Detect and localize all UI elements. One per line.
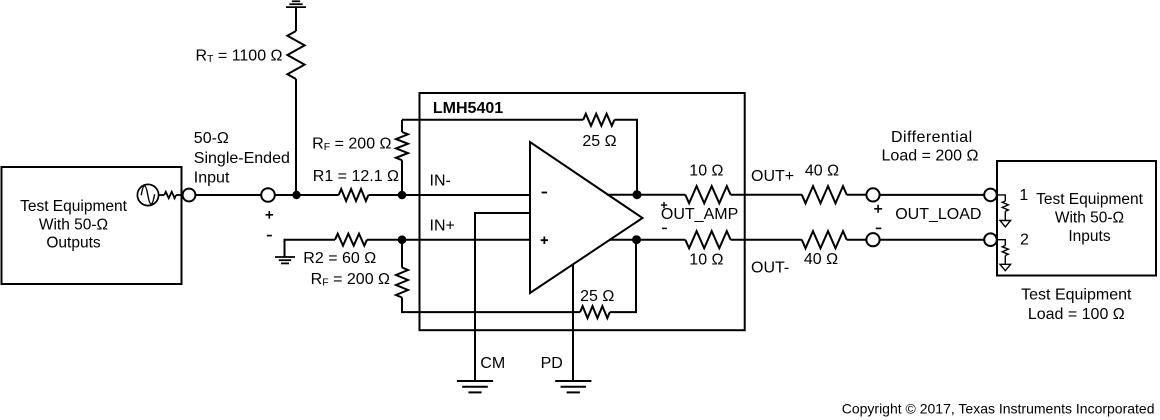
wire P2 to load port bottom bbox=[880, 239, 985, 241]
label 50-ohm Single-Ended Input bbox=[194, 130, 290, 187]
wire 25 ohm bottom to OUT- node bbox=[610, 240, 636, 312]
wire J1 to J2 bbox=[195, 194, 261, 196]
wire R2 to IN+ (into amp) bbox=[367, 239, 530, 241]
resistor 25 ohm bottom internal bbox=[580, 306, 610, 318]
ground GND top (inverted, above RT) bbox=[286, 1, 306, 7]
svg-text:Copyright © 2017, Texas Instru: Copyright © 2017, Texas Instruments Inco… bbox=[842, 400, 1155, 416]
label Test Equipment Load = 100 ohm bbox=[1021, 287, 1132, 324]
svg-text:OUT_AMP: OUT_AMP bbox=[661, 206, 738, 223]
svg-text:IN+: IN+ bbox=[430, 218, 455, 235]
resistor RT (vertical 1100 ohm) bbox=[287, 31, 304, 79]
wire 40 ohm to port top bbox=[847, 194, 867, 196]
svg-text:RT = 1100 Ω: RT = 1100 Ω bbox=[195, 47, 282, 65]
ground CM bbox=[457, 381, 493, 392]
svg-text:40 Ω: 40 Ω bbox=[805, 163, 839, 180]
svg-text:RF = 200 Ω: RF = 200 Ω bbox=[312, 136, 391, 154]
resistor 25 ohm top internal bbox=[583, 114, 614, 126]
wire 10 ohm to 40 ohm top bbox=[731, 194, 802, 196]
node input junction bbox=[292, 191, 300, 199]
wire CM to amp bbox=[475, 213, 530, 380]
resistor 40 ohm top bbox=[802, 186, 847, 203]
svg-text:CM: CM bbox=[480, 355, 505, 372]
wire J2 to R1 bbox=[275, 194, 339, 196]
svg-text:Differential: Differential bbox=[891, 129, 973, 146]
svg-text:With 50-Ω: With 50-Ω bbox=[39, 216, 108, 233]
test equipment output box bbox=[2, 167, 182, 284]
node OUT- junction bbox=[632, 235, 641, 244]
resistor RF upper (200 ohm feedback) bbox=[396, 132, 408, 160]
node IN+ junction bbox=[398, 235, 407, 244]
terminal port P3 top right bbox=[984, 189, 997, 202]
svg-text:Load = 200 Ω: Load = 200 Ω bbox=[882, 147, 979, 164]
resistor RF lower (200 ohm feedback) bbox=[396, 268, 408, 298]
label Test Equipment With 50-ohm Inputs bbox=[1036, 191, 1144, 245]
ground arrow input 1 bbox=[1000, 221, 1011, 227]
wire IN- node up to RF top bbox=[401, 160, 403, 195]
polarity - OUT_AMP bbox=[662, 227, 667, 229]
wire RF lower to bottom rail bbox=[402, 298, 580, 313]
svg-text:Outputs: Outputs bbox=[46, 235, 101, 252]
wire RT bottom to input node bbox=[295, 79, 297, 195]
svg-text:2: 2 bbox=[1020, 231, 1029, 248]
wire 40 ohm to port bottom bbox=[847, 239, 867, 241]
svg-text:IN-: IN- bbox=[430, 173, 451, 190]
svg-text:Input: Input bbox=[194, 170, 230, 187]
svg-text:LMH5401: LMH5401 bbox=[433, 100, 503, 117]
svg-text:10 Ω: 10 Ω bbox=[689, 251, 723, 268]
wire amp output to OUT- node bbox=[609, 239, 685, 241]
svg-text:OUT-: OUT- bbox=[751, 260, 789, 277]
svg-text:PD: PD bbox=[541, 355, 563, 372]
svg-text:25 Ω: 25 Ω bbox=[580, 288, 614, 305]
resistor source 50-ohm internal bbox=[164, 192, 176, 198]
wire source to series resistor bbox=[159, 194, 165, 196]
ground for R2 bbox=[275, 257, 295, 263]
wire 25 ohm to OUT+ node bbox=[614, 120, 637, 195]
svg-text:RF = 200 Ω: RF = 200 Ω bbox=[311, 271, 390, 289]
source VS (signal generator) bbox=[137, 184, 158, 205]
wire resistor to terminal bbox=[176, 194, 183, 196]
wire 10 ohm to 40 ohm bottom bbox=[731, 239, 802, 241]
svg-text:25 Ω: 25 Ω bbox=[582, 133, 616, 150]
terminal port P4 bottom right bbox=[984, 233, 997, 246]
IC boundary U1 LMH5401 bbox=[420, 93, 745, 330]
termination resistor input 2 bbox=[997, 240, 1005, 246]
resistor 10 ohm bottom bbox=[685, 231, 730, 248]
svg-text:Test Equipment: Test Equipment bbox=[1021, 287, 1132, 304]
terminal port J2 bbox=[261, 188, 275, 202]
label Differential Load = 200 ohm bbox=[882, 129, 979, 164]
wire top ground stem to RT bbox=[295, 7, 297, 31]
resistor R1 bbox=[339, 189, 369, 201]
polarity + at input bbox=[266, 211, 274, 219]
op-amp inverting input mark bbox=[542, 192, 548, 194]
node OUT+ junction bbox=[633, 190, 642, 199]
node IN- junction bbox=[398, 191, 407, 200]
wire amp output to OUT+ node bbox=[607, 194, 685, 196]
svg-text:Test Equipment: Test Equipment bbox=[1036, 191, 1144, 208]
resistor 10 ohm top bbox=[685, 186, 730, 203]
svg-text:R1 = 12.1 Ω: R1 = 12.1 Ω bbox=[313, 168, 399, 185]
ground PD bbox=[555, 381, 591, 392]
polarity - OUT_LOAD bbox=[876, 227, 882, 229]
svg-text:OUT_LOAD: OUT_LOAD bbox=[895, 206, 981, 223]
wire RF top to feedback rail bbox=[401, 120, 403, 132]
svg-text:1: 1 bbox=[1019, 187, 1028, 204]
terminal port P1 bbox=[866, 188, 879, 201]
wire IN+ node down to RF lower bbox=[401, 240, 403, 268]
polarity + OUT_LOAD bbox=[874, 205, 882, 213]
label Test Equipment With 50-ohm Outputs bbox=[20, 198, 128, 252]
terminal port J1 bbox=[183, 189, 196, 202]
svg-text:Load = 100 Ω: Load = 100 Ω bbox=[1028, 306, 1125, 323]
svg-text:OUT+: OUT+ bbox=[751, 168, 794, 185]
polarity + OUT_AMP bbox=[661, 202, 667, 208]
svg-text:R2 = 60 Ω: R2 = 60 Ω bbox=[303, 250, 376, 267]
wire R1 to IN- (into amp) bbox=[368, 194, 530, 196]
svg-text:Inputs: Inputs bbox=[1068, 228, 1110, 245]
wire P1 to load port top bbox=[880, 194, 985, 196]
wire PD to amp bbox=[572, 265, 574, 381]
resistor 40 ohm bottom bbox=[802, 231, 847, 248]
svg-text:40 Ω: 40 Ω bbox=[804, 251, 838, 268]
op-amp U1 triangle bbox=[530, 142, 643, 293]
op-amp non-inverting input mark bbox=[541, 237, 548, 245]
ground arrow input 2 bbox=[1000, 264, 1011, 270]
svg-text:50-Ω: 50-Ω bbox=[194, 130, 229, 147]
wire top feedback rail bbox=[402, 119, 583, 121]
svg-text:10 Ω: 10 Ω bbox=[689, 163, 723, 180]
svg-text:Test Equipment: Test Equipment bbox=[20, 198, 128, 215]
test equipment input box bbox=[997, 161, 1156, 276]
termination resistor input 1 bbox=[997, 195, 1005, 201]
wire ground to R2 bbox=[285, 240, 336, 257]
polarity - at input bbox=[267, 235, 272, 237]
svg-text:With 50-Ω: With 50-Ω bbox=[1055, 209, 1124, 226]
terminal port P2 bbox=[866, 233, 879, 246]
resistor R2 bbox=[335, 234, 367, 246]
svg-text:Single-Ended: Single-Ended bbox=[194, 150, 290, 167]
